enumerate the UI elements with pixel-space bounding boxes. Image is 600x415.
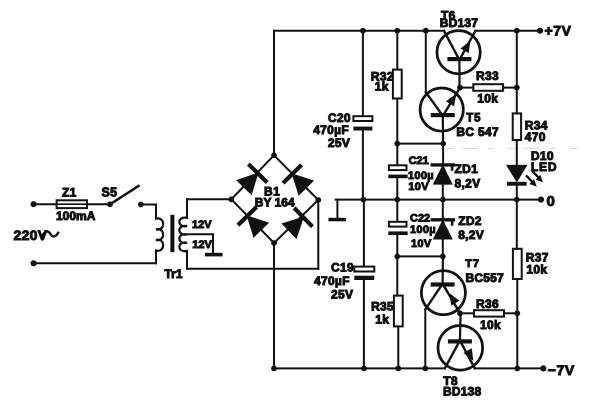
svg-text:R33: R33: [476, 69, 499, 83]
svg-text:0: 0: [547, 193, 555, 210]
svg-text:BD137: BD137: [440, 16, 478, 30]
svg-text:10k: 10k: [480, 318, 501, 332]
svg-text:C19: C19: [331, 260, 354, 274]
svg-text:100µ: 100µ: [410, 224, 436, 236]
svg-text:10k: 10k: [526, 263, 547, 277]
svg-text:T7: T7: [465, 258, 479, 270]
svg-text:S5: S5: [102, 186, 118, 200]
svg-text:10k: 10k: [477, 91, 498, 105]
svg-text:1k: 1k: [375, 312, 389, 326]
svg-text:25V: 25V: [328, 136, 350, 150]
svg-text:ZD1: ZD1: [455, 162, 479, 176]
svg-text:12V: 12V: [192, 219, 212, 231]
svg-text:10V: 10V: [411, 238, 432, 250]
svg-text:100mA: 100mA: [56, 209, 96, 223]
svg-text:+7V: +7V: [545, 23, 572, 39]
svg-text:12V: 12V: [192, 239, 212, 251]
svg-text:470µF: 470µF: [314, 274, 350, 288]
svg-text:BC557: BC557: [466, 271, 504, 285]
svg-text:8,2V: 8,2V: [455, 177, 481, 191]
svg-text:BY 164: BY 164: [255, 196, 295, 210]
svg-text:−7V: −7V: [548, 362, 575, 378]
svg-text:ZD2: ZD2: [458, 214, 482, 228]
svg-text:8,2V: 8,2V: [458, 228, 484, 242]
svg-text:BD138: BD138: [443, 384, 481, 398]
svg-text:C21: C21: [409, 155, 429, 167]
svg-text:220V: 220V: [14, 227, 48, 243]
svg-text:100µ: 100µ: [408, 170, 434, 182]
svg-text:BC 547: BC 547: [456, 125, 499, 139]
svg-text:10V: 10V: [408, 181, 429, 193]
svg-text:470: 470: [525, 130, 546, 144]
svg-text:1k: 1k: [375, 79, 389, 93]
svg-text:470µF: 470µF: [313, 123, 349, 137]
svg-text:LED: LED: [531, 160, 557, 174]
svg-text:R36: R36: [476, 297, 499, 311]
svg-text:25V: 25V: [331, 288, 353, 302]
svg-text:T5: T5: [466, 112, 481, 124]
svg-text:C22: C22: [410, 212, 430, 224]
svg-text:Z1: Z1: [62, 185, 77, 199]
svg-text:Tr1: Tr1: [165, 267, 183, 281]
